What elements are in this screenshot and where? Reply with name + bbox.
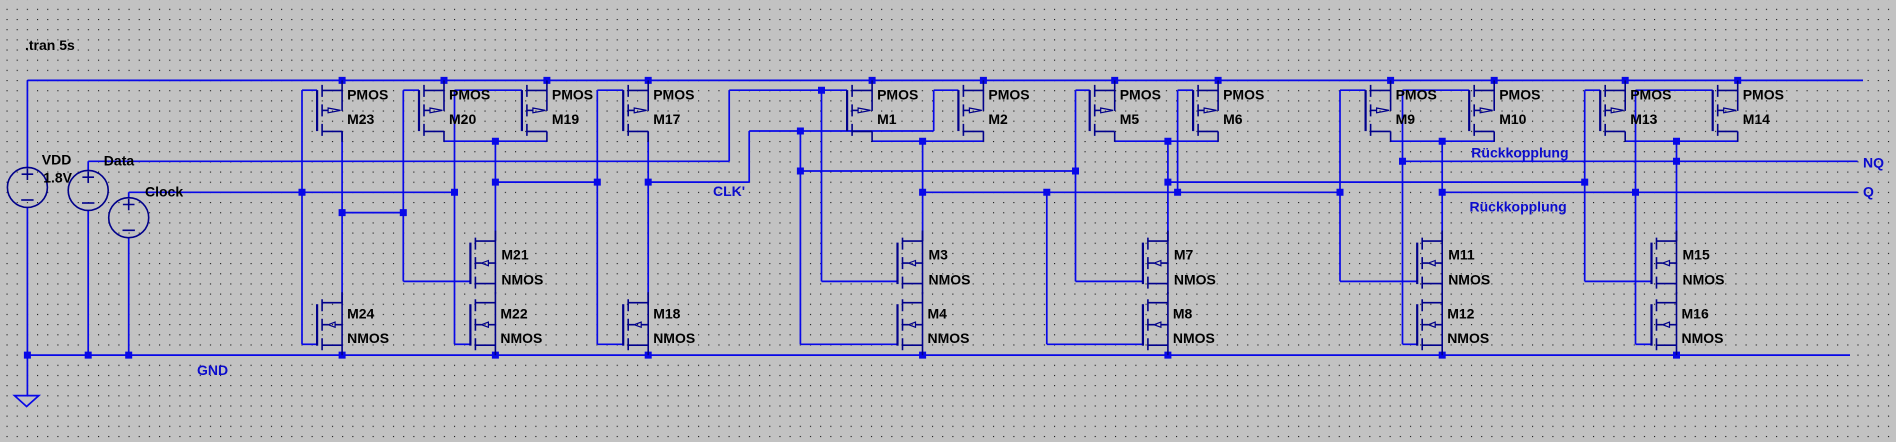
svg-text:GND: GND: [197, 362, 228, 378]
wire M23/M24 gate riser: [301, 90, 303, 344]
transistor M7 NMOS (middle row): [1143, 231, 1216, 294]
wire M7 gate stub: [1076, 280, 1143, 282]
transistor M22 NMOS (bottom row): [470, 292, 542, 355]
transistor M11 NMOS (middle row): [1417, 231, 1490, 294]
svg-text:M4: M4: [928, 306, 948, 322]
svg-text:PMOS: PMOS: [1630, 86, 1671, 102]
svg-text:NMOS: NMOS: [501, 272, 543, 288]
transistor M4 NMOS (bottom row): [898, 292, 970, 355]
wire M5 gate stub: [1076, 89, 1090, 91]
svg-text:M19: M19: [552, 111, 579, 127]
wire source tie M13-M14: [1625, 140, 1738, 142]
svg-text:M21: M21: [501, 247, 528, 263]
svg-text:M5: M5: [1120, 111, 1140, 127]
wire Clock source bottom lead: [128, 238, 130, 355]
junction squares on VDD rail: [339, 77, 1742, 84]
wire Q gate riser M14/M16: [1635, 90, 1637, 344]
wire NAND-D output column: [1441, 141, 1443, 241]
wire CLK' column M17-M18: [647, 131, 649, 302]
wire GND rail: [27, 354, 1850, 356]
svg-text:.tran 5s: .tran 5s: [25, 37, 75, 53]
wire Data source top lead: [87, 161, 89, 170]
svg-text:PMOS: PMOS: [988, 86, 1029, 102]
svg-text:M16: M16: [1682, 306, 1709, 322]
wire M23 gate stub: [302, 89, 317, 91]
svg-text:M24: M24: [347, 306, 374, 322]
svg-text:Rückkopplung: Rückkopplung: [1470, 199, 1567, 215]
transistor M12 NMOS (bottom row): [1417, 292, 1489, 355]
wire Clock gate riser M19/M22: [454, 90, 456, 344]
transistor M3 NMOS (middle row): [898, 231, 971, 294]
svg-text:PMOS: PMOS: [1120, 86, 1161, 102]
wire M11 gate stub: [1340, 280, 1417, 282]
svg-text:M8: M8: [1173, 306, 1193, 322]
svg-text:Clock: Clock: [145, 184, 183, 200]
wire M22 gate stub: [455, 343, 471, 345]
wire NAND-E output column: [1676, 141, 1678, 241]
wire R' net (NAND-C output): [1168, 181, 1585, 183]
svg-text:PMOS: PMOS: [1396, 86, 1437, 102]
svg-text:NMOS: NMOS: [1447, 330, 1489, 346]
wire Data riser at 729: [728, 90, 730, 161]
svg-text:Data: Data: [104, 152, 135, 168]
wire CLKB gate riser: [402, 90, 404, 281]
ground symbol: [15, 396, 39, 407]
svg-text:CLK': CLK': [713, 183, 745, 199]
transistor M2 PMOS: [958, 80, 1029, 141]
svg-text:NQ: NQ: [1863, 154, 1884, 170]
svg-text:NMOS: NMOS: [1448, 272, 1490, 288]
wire S' gate riser M9/M11: [1339, 90, 1341, 281]
voltage source VDD 1.8V: [7, 152, 72, 208]
svg-text:PMOS: PMOS: [1743, 86, 1784, 102]
wire NQ gate riser M10/M12: [1402, 90, 1404, 344]
transistor M23 PMOS: [317, 80, 388, 141]
svg-text:VDD: VDD: [42, 152, 72, 168]
transistor M13 PMOS: [1600, 80, 1671, 141]
wire M3 gate stub: [822, 280, 898, 282]
wire Data net top jog to M1/M3 gates: [729, 89, 847, 91]
wire VDD source top lead: [26, 80, 28, 167]
svg-text:M1: M1: [877, 111, 897, 127]
svg-text:M17: M17: [653, 111, 680, 127]
wire M18 gate stub: [597, 343, 623, 345]
svg-text:M14: M14: [1743, 111, 1770, 127]
wire M20 gate stub: [403, 89, 419, 91]
svg-text:NMOS: NMOS: [1682, 330, 1724, 346]
voltage source Clock: [109, 184, 184, 238]
wire Data gate riser M1/M3: [821, 90, 823, 281]
wire ground drop: [26, 355, 28, 396]
transistor M24 NMOS (bottom row): [317, 292, 389, 355]
svg-text:M18: M18: [653, 306, 680, 322]
wire CLK' gate riser M5/M7: [1075, 90, 1077, 281]
svg-text:M6: M6: [1223, 111, 1243, 127]
wire M6 gate stub: [1178, 89, 1194, 91]
transistor M14 PMOS: [1713, 80, 1784, 141]
wire M24 gate stub: [302, 343, 317, 345]
transistor M1 PMOS: [847, 80, 918, 141]
svg-text:NMOS: NMOS: [347, 330, 389, 346]
svg-text:M15: M15: [1683, 247, 1710, 263]
wire Data source bottom lead: [87, 210, 89, 355]
wire Data net horizontal: [88, 160, 729, 162]
wire Clock source top lead: [128, 192, 130, 198]
svg-text:NMOS: NMOS: [653, 330, 695, 346]
wire source tie M9-M10: [1391, 140, 1495, 142]
svg-text:PMOS: PMOS: [552, 86, 593, 102]
svg-text:NMOS: NMOS: [1173, 330, 1215, 346]
wire NQ net: [1403, 160, 1858, 162]
wire CLK' upper run: [749, 130, 934, 132]
svg-text:1.8V: 1.8V: [43, 170, 72, 186]
svg-text:PMOS: PMOS: [877, 86, 918, 102]
svg-text:NMOS: NMOS: [928, 330, 970, 346]
wire CLK' drop at 800: [799, 131, 801, 344]
svg-text:M3: M3: [929, 247, 949, 263]
wire Clock net: [129, 191, 455, 193]
wire CLK' riser at 749: [748, 131, 750, 182]
transistor M17 PMOS: [623, 80, 694, 141]
wire R' gate riser M13/M15: [1584, 90, 1586, 281]
transistor M9 PMOS: [1366, 80, 1437, 141]
wire M8 gate stub: [1047, 343, 1143, 345]
svg-text:Rückkopplung: Rückkopplung: [1471, 144, 1568, 160]
wire M21 gate stub: [403, 280, 470, 282]
svg-text:Q: Q: [1863, 184, 1874, 200]
svg-text:NMOS: NMOS: [1683, 272, 1725, 288]
wire NAND-B output column: [922, 141, 924, 241]
transistor M16 NMOS (bottom row): [1652, 292, 1724, 355]
wire node X column M21: [494, 141, 496, 241]
wire node X gate riser M17/M18: [596, 90, 598, 344]
svg-text:M9: M9: [1396, 111, 1416, 127]
voltage source Data: [68, 152, 134, 210]
junction squares on GND rail: [24, 352, 1680, 359]
svg-text:PMOS: PMOS: [1499, 86, 1540, 102]
svg-text:PMOS: PMOS: [449, 86, 490, 102]
svg-text:M22: M22: [500, 306, 527, 322]
transistor M20 PMOS: [419, 80, 490, 141]
wire M10 gate stub: [1403, 89, 1470, 91]
transistor M5 PMOS: [1090, 80, 1161, 141]
transistor M19 PMOS: [522, 80, 593, 141]
transistor M15 NMOS (middle row): [1652, 231, 1725, 294]
wire M17 gate stub: [597, 89, 623, 91]
wire CLK' distribution row: [800, 170, 1075, 172]
wire CLK' riser to M2 gate: [933, 90, 935, 131]
wire M15 gate stub: [1585, 280, 1652, 282]
svg-text:M11: M11: [1448, 247, 1475, 263]
wire node X (NAND-A output): [495, 181, 597, 183]
svg-text:NMOS: NMOS: [929, 272, 971, 288]
svg-text:PMOS: PMOS: [347, 86, 388, 102]
wire S' riser to M6 gate: [1177, 90, 1179, 192]
wire M12 gate stub: [1403, 343, 1418, 345]
wire CLKB node bridge: [342, 212, 403, 214]
wire NAND-C output column: [1167, 141, 1169, 241]
wire M19 gate stub: [455, 89, 522, 91]
wire S' net (NAND-B output): [923, 191, 1340, 193]
wire source tie M1-M2: [872, 140, 983, 142]
svg-text:NMOS: NMOS: [1174, 272, 1216, 288]
wire S' drop to M8 gate: [1046, 192, 1048, 344]
wire source tie M5-M6: [1115, 140, 1218, 142]
wire M9 gate stub: [1340, 89, 1366, 91]
wire CLK' jog to M2 gate: [934, 89, 959, 91]
wire CLK' segment from M17/M18 output: [648, 181, 749, 183]
svg-text:M12: M12: [1447, 306, 1474, 322]
svg-text:NMOS: NMOS: [500, 330, 542, 346]
transistor M6 PMOS: [1193, 80, 1264, 141]
wire VDD source bottom lead: [26, 207, 28, 355]
junction squares at net branch points: [299, 87, 1681, 216]
svg-text:M23: M23: [347, 111, 374, 127]
transistor M10 PMOS: [1469, 80, 1540, 141]
svg-text:PMOS: PMOS: [1223, 86, 1264, 102]
svg-text:M2: M2: [988, 111, 1008, 127]
transistor M21 NMOS (middle row): [470, 231, 543, 294]
svg-text:M7: M7: [1174, 247, 1194, 263]
transistor M18 NMOS (bottom row): [623, 292, 695, 355]
wire M16 gate stub: [1636, 343, 1652, 345]
wire VDD rail: [27, 79, 1863, 81]
wire M14 gate stub: [1636, 89, 1713, 91]
wire M13 gate stub: [1585, 89, 1601, 91]
wire CLKB column M23-M24: [341, 131, 343, 302]
transistor M8 NMOS (bottom row): [1143, 292, 1215, 355]
wire source tie M20-M19: [444, 140, 547, 142]
wire M4 gate stub: [800, 343, 897, 345]
svg-text:M20: M20: [449, 111, 476, 127]
svg-text:M13: M13: [1630, 111, 1657, 127]
svg-text:M10: M10: [1499, 111, 1526, 127]
wire Q net: [1442, 191, 1857, 193]
svg-text:PMOS: PMOS: [653, 86, 694, 102]
